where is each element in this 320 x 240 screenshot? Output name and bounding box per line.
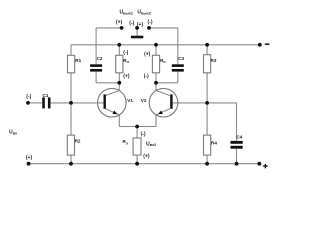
svg-text:(+): (+) [26, 155, 33, 161]
node Rn1 top junction [117, 43, 121, 47]
node base1 junction [69, 101, 73, 105]
capacitor C4 plates [230, 141, 242, 144]
svg-text:C2: C2 [97, 56, 103, 61]
resistor Re [133, 138, 141, 155]
svg-text:Uвых2: Uвых2 [137, 10, 150, 16]
wire C3 to collector node [156, 82, 178, 84]
svg-text:(+): (+) [123, 73, 130, 79]
svg-text:Uвх: Uвх [9, 130, 18, 136]
resistor Rn1 [116, 55, 123, 73]
wire C3 bottom lead [177, 72, 179, 83]
svg-text:V1: V1 [127, 98, 133, 103]
wire Rn2 top [155, 45, 157, 56]
svg-text:(+): (+) [116, 20, 123, 26]
wire input to C1 [28, 102, 42, 104]
transistor V2 circle [149, 88, 178, 117]
chassis bar (output midpoint) [131, 36, 143, 39]
svg-text:C1: C1 [43, 93, 49, 98]
node top rail right terminal [258, 43, 262, 47]
transistor V1 base bar [104, 94, 106, 108]
wire top rail [71, 44, 260, 46]
capacitor C2 plates [90, 64, 102, 67]
node emitter junction [135, 125, 139, 129]
svg-text:R3: R3 [211, 58, 217, 63]
svg-text:(-): (-) [123, 50, 128, 56]
svg-text:Rн: Rн [160, 58, 166, 64]
resistor R1 [68, 55, 75, 73]
wire Rn2 bottom to V2 collector [155, 73, 157, 91]
svg-text:Uвх2: Uвх2 [146, 141, 156, 147]
wire mid terminal to chassis bar [136, 28, 138, 36]
svg-text:Rн: Rн [123, 58, 129, 64]
wire emitter join [119, 126, 156, 128]
svg-text:C3: C3 [178, 56, 184, 61]
node V1 collector junction [117, 81, 121, 85]
wire Re bottom lead [136, 155, 138, 164]
wire output2 down to C3 [177, 28, 179, 64]
capacitor C3 plates [172, 64, 184, 67]
node R2 bottom junction [69, 162, 73, 166]
svg-text:(-): (-) [148, 20, 153, 26]
svg-text:(+): (+) [144, 51, 151, 57]
svg-text:Uвых1: Uвых1 [120, 10, 133, 16]
capacitor C1 plates [42, 97, 45, 108]
wire output2 horizontal [149, 27, 178, 29]
node input top terminal [26, 101, 30, 105]
svg-text:(+): (+) [143, 153, 150, 159]
node input bottom terminal [27, 162, 31, 166]
svg-text:(+): (+) [137, 22, 144, 28]
wire Rn1 top [118, 45, 120, 56]
node output1 terminal [120, 26, 124, 30]
svg-text:R4: R4 [211, 140, 217, 145]
svg-text:C4: C4 [236, 134, 242, 139]
transistor V2 emitter arrow [158, 111, 163, 115]
resistor R4 [204, 135, 211, 155]
node C4 bottom junction [235, 162, 239, 166]
wire V2 base to R3 and C4 [172, 102, 236, 104]
transistor V1 emitter arrow [113, 111, 118, 115]
wire C1 to V1 base [51, 102, 104, 104]
transistor V2 base bar [170, 94, 172, 108]
wire bottom rail [29, 163, 260, 165]
wire R4 bottom [206, 155, 208, 164]
node output mid terminal [135, 26, 139, 30]
label plus bottom right (cross) [263, 165, 267, 166]
svg-text:(-): (-) [144, 73, 149, 79]
node Rn2 top junction [154, 43, 158, 47]
wire V1 emitter down [118, 115, 120, 127]
node R3 top junction [205, 43, 209, 47]
wire V2 emitter diagonal [156, 109, 170, 115]
wire C2 bottom lead [95, 72, 97, 83]
svg-text:R1: R1 [75, 58, 81, 63]
svg-text:(-): (-) [141, 131, 146, 137]
wire Rn1 bottom to V1 collector [118, 73, 120, 91]
wire R3 bottom to R4 [206, 73, 208, 135]
svg-text:(-): (-) [26, 94, 31, 100]
svg-text:V2: V2 [141, 98, 147, 103]
svg-text:R2: R2 [75, 138, 81, 143]
wire R1/R2 column [70, 45, 72, 164]
wire V1 collector diagonal [106, 91, 120, 96]
wire V2 collector diagonal [156, 91, 170, 96]
node R4 bottom junction [205, 162, 209, 166]
node bottom rail right terminal [257, 162, 261, 166]
resistor Rn2 [152, 55, 159, 73]
node V2 base junction [205, 101, 209, 105]
wire output1 horizontal [96, 27, 122, 29]
node output2 terminal [147, 26, 151, 30]
resistor R2 [67, 135, 74, 155]
node Re bottom junction [135, 162, 139, 166]
wire V2 emitter down [155, 115, 157, 127]
wire output1 down to C2 [95, 28, 97, 64]
svg-text:(-): (-) [129, 21, 134, 27]
wire Re top lead [136, 127, 138, 139]
transistor V1 circle [98, 88, 127, 117]
resistor R3 [204, 55, 211, 73]
node V2 collector junction [154, 81, 158, 85]
wire V1 emitter diagonal [106, 109, 120, 115]
wire R3 top [206, 45, 208, 55]
wire C4 down lead [236, 103, 238, 164]
wire C2 to collector node [96, 82, 119, 84]
label minus top right (bar) [265, 43, 270, 45]
